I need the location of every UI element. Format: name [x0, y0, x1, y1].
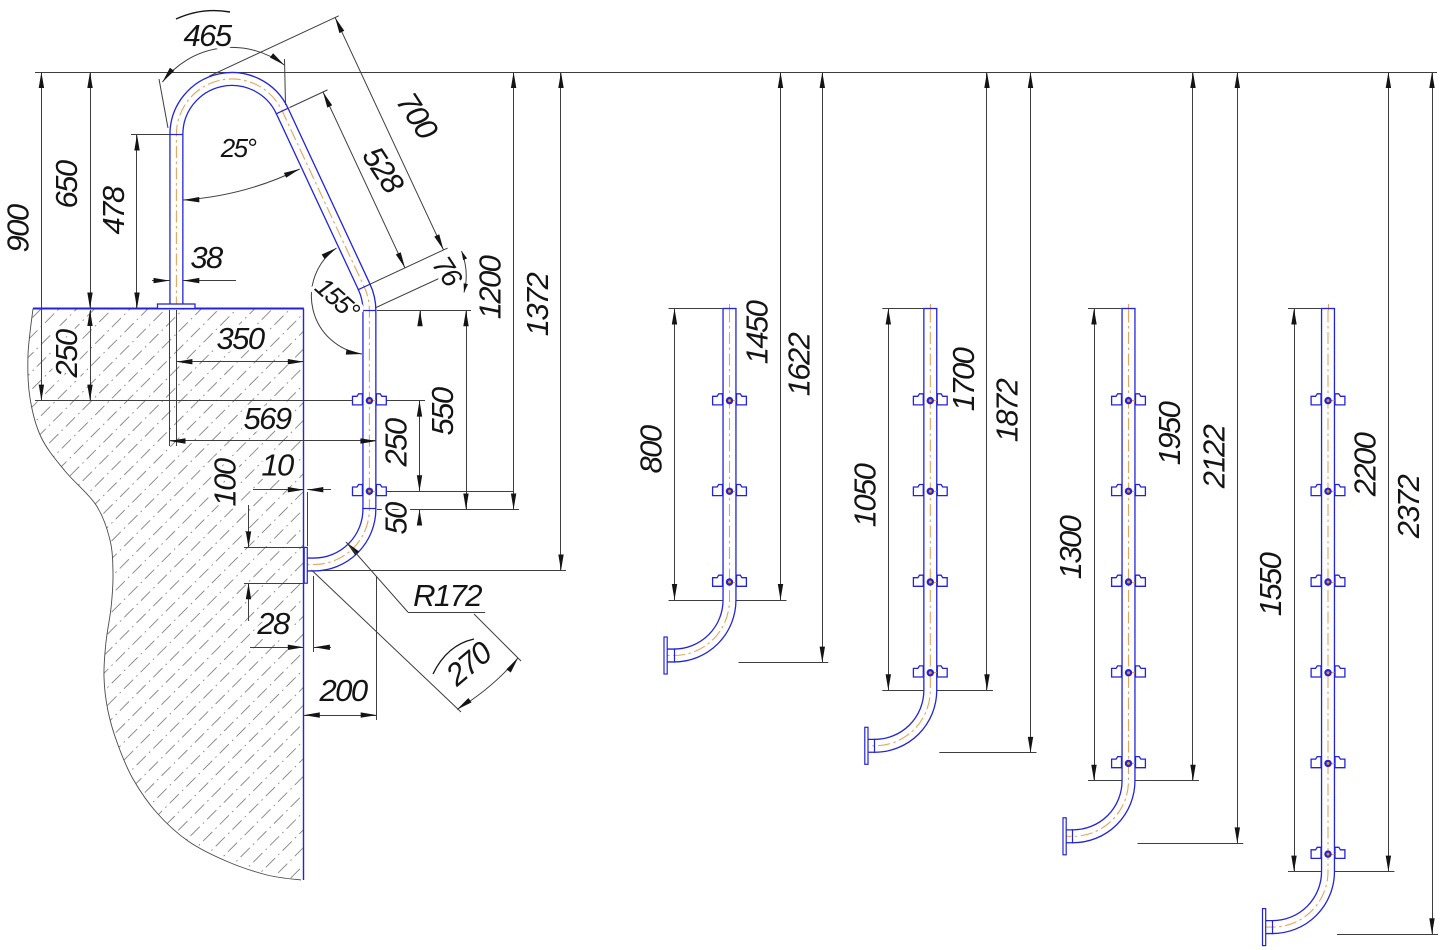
svg-text:900: 900 — [0, 204, 35, 252]
ladder rail 2 (1050 mm) — [865, 304, 1037, 764]
weld tick slope top — [276, 108, 289, 114]
dimension 1622 (ladder 1) — [822, 72, 824, 663]
weld tick elbow top — [358, 284, 371, 290]
wall flange — [304, 547, 307, 583]
svg-text:25°: 25° — [220, 133, 257, 163]
ladder 1 bracket 3 — [712, 575, 747, 586]
svg-text:1550: 1550 — [1253, 552, 1288, 616]
dimension 2200 (ladder 4) — [1388, 72, 1390, 872]
ladder rail 4 (1550 mm) — [1263, 304, 1439, 946]
svg-text:50: 50 — [379, 502, 414, 535]
svg-text:1700: 1700 — [946, 347, 981, 411]
ladder 4 bracket 6 — [1311, 847, 1346, 858]
dimension 900 — [41, 72, 43, 401]
extension line flange bottom — [244, 583, 303, 585]
ladder 3 bracket 4 — [1111, 666, 1146, 677]
dimension 1450 (ladder 1) — [780, 72, 782, 600]
pool deck concrete section with hatching — [0, 295, 892, 885]
weld tick bottom bend start — [362, 508, 376, 510]
dimension 528 — [323, 92, 405, 268]
handrail tube outline — [176, 79, 369, 565]
ladder 4 bracket 5 — [1311, 757, 1346, 768]
ladder 3 bracket 1 — [1111, 394, 1146, 405]
dimension 200 — [304, 715, 377, 717]
mounting bracket B1 — [352, 394, 387, 405]
ladder 2 bracket 2 — [913, 485, 948, 496]
svg-text:10: 10 — [261, 448, 294, 483]
svg-text:200: 200 — [319, 673, 368, 708]
chain point arrow at elbow end — [420, 310, 422, 326]
dimension 1872 (ladder 2) — [1030, 72, 1032, 753]
ladder 1 bracket 1 — [712, 394, 747, 405]
extension line flange thickness — [307, 492, 309, 546]
svg-text:1950: 1950 — [1152, 401, 1187, 465]
dimension 800 (ladder 1) — [674, 309, 676, 601]
svg-text:1872: 1872 — [990, 378, 1025, 442]
ladder rail 1 (800 mm) — [664, 304, 828, 674]
dimension 1200 — [513, 72, 515, 510]
ladder rail 3 (1300 mm) — [1063, 304, 1243, 855]
weld tick top bend start — [170, 134, 184, 136]
svg-text:650: 650 — [49, 160, 84, 208]
pool deck surface line — [33, 308, 304, 310]
ladder 3 bracket 3 — [1111, 575, 1146, 586]
dimension 250 right — [419, 401, 421, 492]
svg-text:2122: 2122 — [1196, 424, 1231, 489]
dimension 550 — [466, 310, 468, 509]
svg-text:569: 569 — [244, 401, 292, 436]
svg-text:1300: 1300 — [1053, 515, 1088, 579]
extension line 28 right — [313, 576, 315, 652]
svg-text:2372: 2372 — [1391, 474, 1426, 539]
svg-text:550: 550 — [425, 387, 460, 435]
ladder 2 bracket 3 — [913, 575, 948, 586]
dimension 100 — [248, 505, 250, 547]
dimension 38 — [152, 280, 170, 282]
svg-text:800: 800 — [634, 425, 669, 473]
svg-text:1050: 1050 — [847, 463, 882, 527]
svg-text:2200: 2200 — [1347, 432, 1382, 497]
handrail tube centerline — [176, 79, 369, 565]
ladder 3 bracket 2 — [1111, 485, 1146, 496]
svg-text:250: 250 — [49, 329, 84, 378]
angle dimension 25 deg — [183, 169, 299, 200]
extension line tube lower end — [377, 509, 519, 511]
svg-text:350: 350 — [217, 321, 265, 356]
arc dimension 465 — [159, 79, 168, 128]
dimension 250 left — [90, 310, 92, 401]
svg-text:1450: 1450 — [740, 300, 775, 364]
dimension 28 — [250, 647, 304, 649]
svg-text:465: 465 — [184, 18, 233, 53]
angle dimension 155 deg — [311, 248, 362, 354]
svg-text:250: 250 — [379, 418, 414, 467]
svg-text:1372: 1372 — [520, 272, 555, 336]
extension line bracket B2 — [387, 491, 514, 493]
dimension 650 — [90, 72, 92, 309]
extension line tube center below deck — [176, 310, 178, 446]
svg-text:R172: R172 — [413, 578, 482, 613]
svg-text:38: 38 — [190, 240, 224, 275]
dimension 10 — [253, 489, 304, 491]
ladder 1 bracket 2 — [712, 485, 747, 496]
extension line elbow end — [377, 310, 471, 312]
top reference extension line — [35, 72, 1437, 74]
extension line 478 top — [131, 134, 170, 136]
ladder 4 bracket 2 — [1311, 485, 1346, 496]
arc dimension 270 — [312, 570, 462, 712]
extension line handrail bottom — [315, 570, 566, 572]
extension line at 900 bottom / bracket level — [35, 400, 425, 402]
dimension 1550 (ladder 4) — [1294, 309, 1296, 872]
radius leader R172 — [346, 542, 359, 555]
extension line tube left edge below deck — [169, 310, 171, 446]
extension line 200 right — [376, 576, 378, 720]
svg-text:100: 100 — [208, 458, 243, 506]
dimension 1372 — [560, 72, 562, 571]
extension line flange top — [244, 547, 303, 549]
pool wall edge — [303, 309, 305, 881]
deck flange — [158, 304, 196, 309]
svg-text:478: 478 — [96, 185, 131, 234]
svg-text:28: 28 — [256, 606, 291, 641]
dimension 50 — [419, 510, 421, 525]
dimension 1700 (ladder 2) — [986, 72, 988, 690]
svg-text:1200: 1200 — [473, 255, 508, 319]
dimension 1050 (ladder 2) — [888, 309, 890, 691]
mounting bracket B2 — [352, 485, 387, 496]
weld tick elbow bottom — [362, 310, 376, 312]
dimension 569 — [170, 440, 377, 442]
ladder 4 bracket 4 — [1311, 666, 1346, 677]
dimension 1950 (ladder 3) — [1192, 72, 1194, 781]
dimension 350 — [176, 361, 303, 363]
ladder 4 bracket 3 — [1311, 575, 1346, 586]
dimension 2122 (ladder 3) — [1237, 72, 1239, 843]
dimension 76 — [375, 272, 453, 308]
ladder 2 bracket 4 — [913, 666, 948, 677]
dimension 700 — [335, 17, 443, 249]
dimension 1300 (ladder 3) — [1094, 309, 1096, 781]
deck section boundary (break line) — [28, 309, 301, 881]
ladder 2 bracket 1 — [913, 394, 948, 405]
svg-text:1622: 1622 — [781, 332, 816, 396]
ladder 4 bracket 1 — [1311, 394, 1346, 405]
dimension 478 — [136, 135, 138, 309]
ladder 3 bracket 5 — [1111, 757, 1146, 768]
dimension 2372 (ladder 4) — [1432, 72, 1434, 934]
